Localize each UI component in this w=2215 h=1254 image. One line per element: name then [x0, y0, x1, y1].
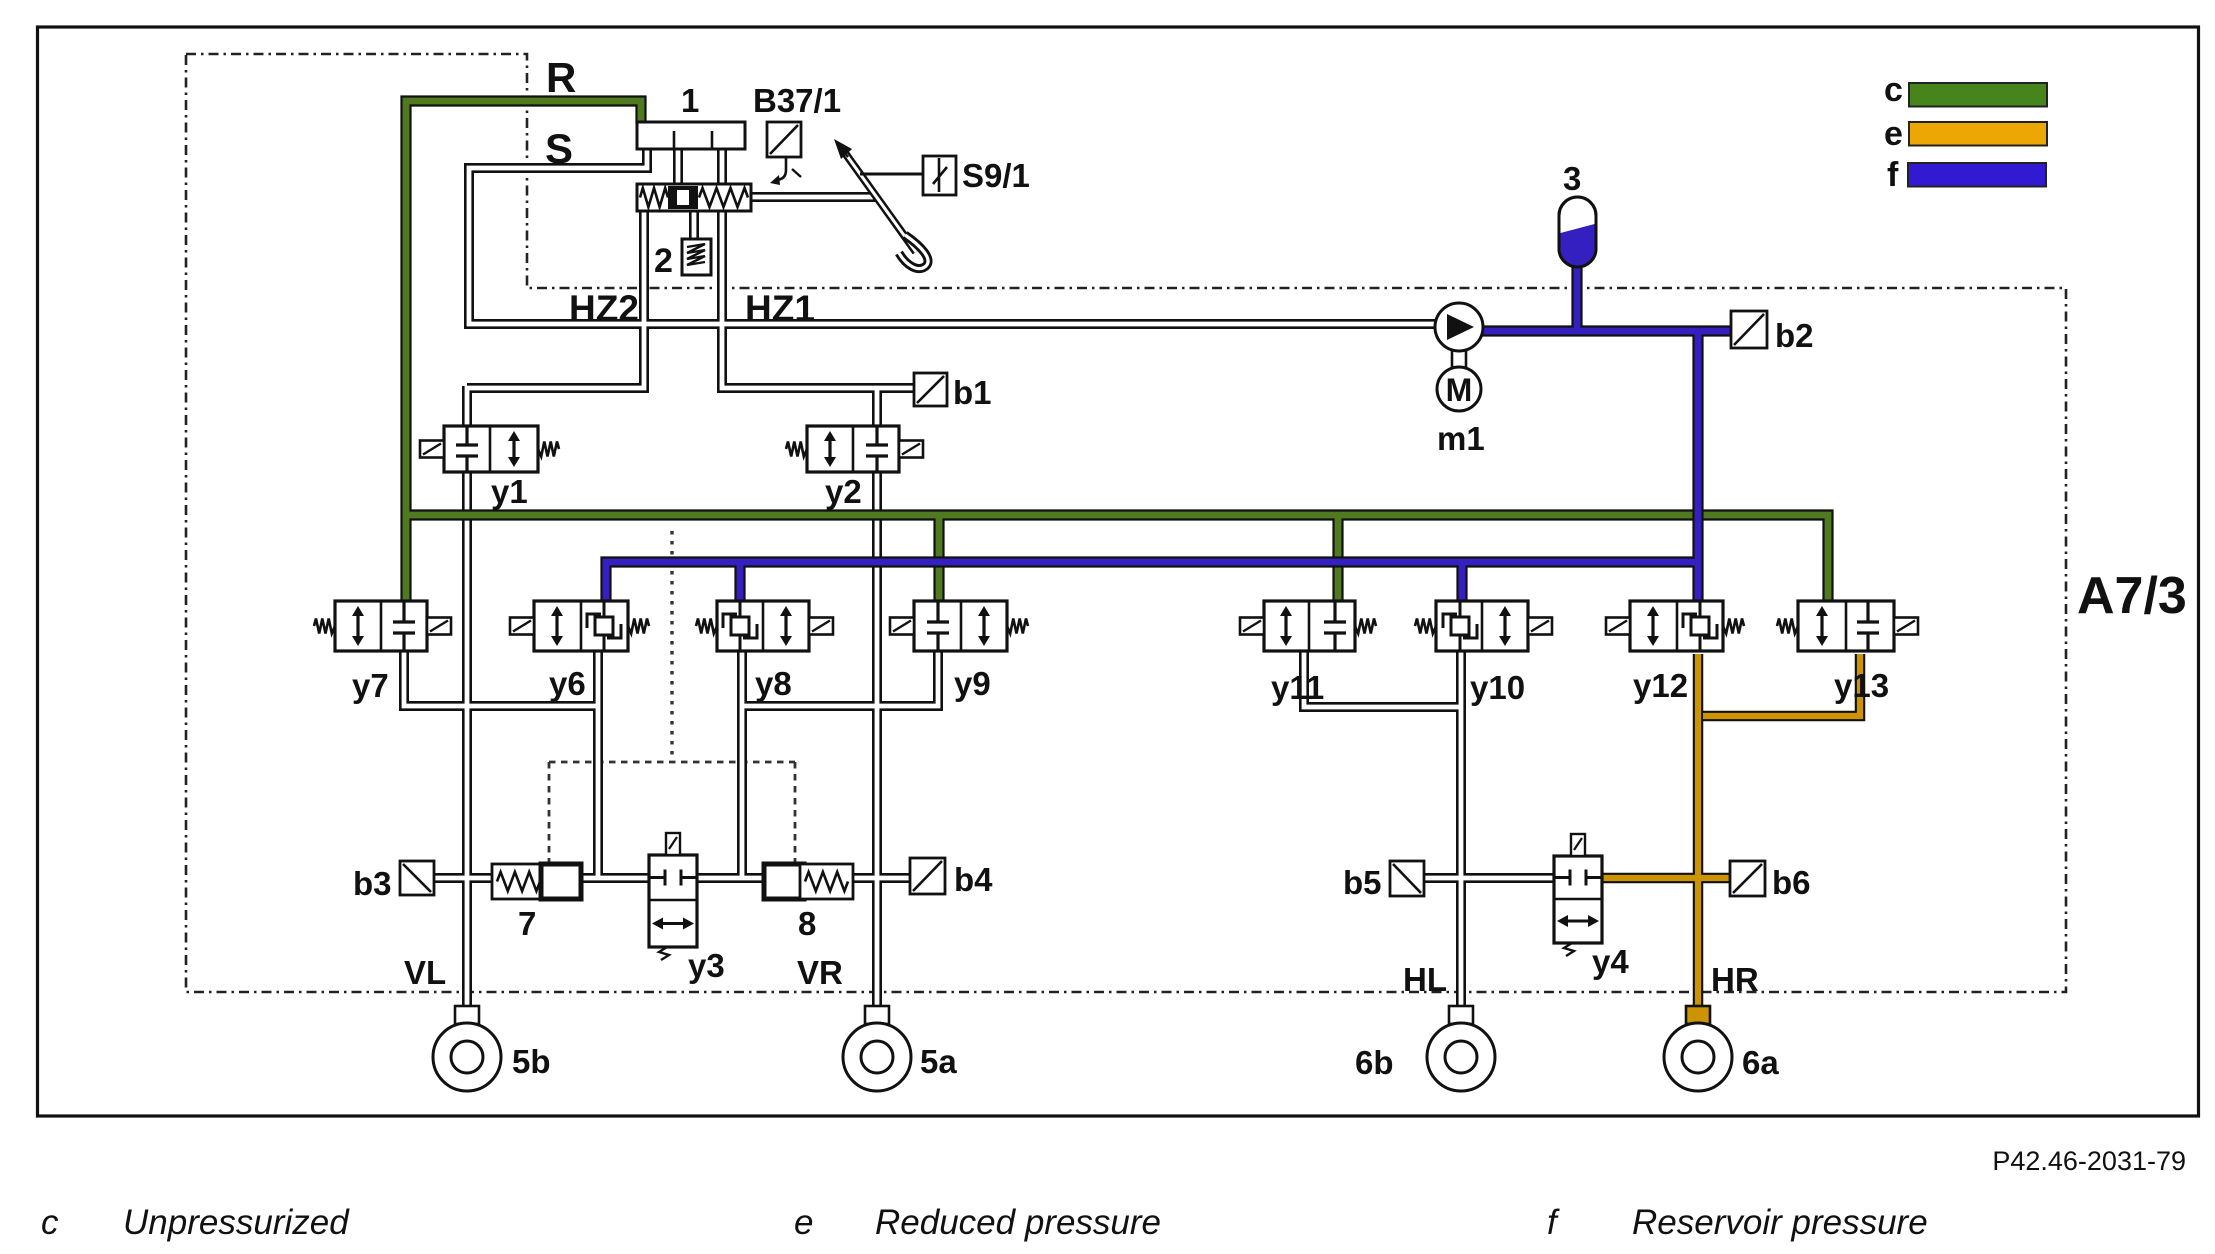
- svg-text:c: c: [1884, 71, 1903, 109]
- svg-text:y1: y1: [491, 473, 528, 510]
- svg-text:b2: b2: [1775, 317, 1814, 354]
- svg-text:6b: 6b: [1355, 1044, 1394, 1081]
- svg-text:HR: HR: [1711, 961, 1759, 998]
- svg-text:Reservoir pressure: Reservoir pressure: [1632, 1203, 1928, 1242]
- svg-text:5a: 5a: [920, 1043, 957, 1080]
- svg-text:y7: y7: [352, 667, 389, 704]
- svg-text:y8: y8: [755, 665, 792, 702]
- svg-text:P42.46-2031-79: P42.46-2031-79: [1992, 1146, 2186, 1176]
- svg-text:f: f: [1887, 156, 1899, 194]
- svg-text:5b: 5b: [512, 1043, 551, 1080]
- svg-text:2: 2: [654, 242, 673, 280]
- svg-text:y6: y6: [549, 665, 586, 702]
- svg-text:VR: VR: [797, 954, 843, 991]
- svg-text:b6: b6: [1772, 864, 1811, 901]
- svg-text:b1: b1: [953, 374, 992, 411]
- svg-text:HZ1: HZ1: [745, 288, 815, 329]
- svg-text:S: S: [545, 125, 573, 172]
- svg-text:1: 1: [681, 82, 699, 119]
- svg-text:HL: HL: [1403, 961, 1447, 998]
- svg-text:R: R: [546, 54, 576, 101]
- svg-text:b4: b4: [954, 861, 993, 898]
- svg-text:c: c: [41, 1203, 59, 1242]
- svg-text:y9: y9: [954, 665, 991, 702]
- svg-text:y13: y13: [1834, 667, 1889, 704]
- svg-text:B37/1: B37/1: [753, 82, 841, 119]
- svg-text:y12: y12: [1633, 667, 1688, 704]
- svg-text:6a: 6a: [1742, 1044, 1779, 1081]
- svg-text:b5: b5: [1343, 864, 1382, 901]
- svg-text:M: M: [1446, 372, 1473, 408]
- svg-text:A7/3: A7/3: [2077, 567, 2187, 625]
- svg-text:y2: y2: [825, 473, 862, 510]
- svg-text:y4: y4: [1592, 943, 1629, 980]
- svg-text:7: 7: [518, 905, 536, 942]
- svg-text:Unpressurized: Unpressurized: [123, 1203, 350, 1242]
- svg-text:y11: y11: [1271, 669, 1324, 706]
- svg-text:m1: m1: [1437, 420, 1485, 457]
- svg-text:3: 3: [1563, 160, 1581, 197]
- svg-text:VL: VL: [404, 954, 446, 991]
- svg-text:HZ2: HZ2: [569, 288, 639, 329]
- svg-text:y10: y10: [1470, 669, 1525, 706]
- svg-text:Reduced pressure: Reduced pressure: [875, 1203, 1161, 1242]
- svg-text:e: e: [794, 1203, 813, 1242]
- svg-text:e: e: [1884, 115, 1903, 153]
- svg-text:8: 8: [798, 905, 816, 942]
- svg-text:b3: b3: [353, 865, 392, 902]
- svg-text:y3: y3: [688, 947, 725, 984]
- svg-text:S9/1: S9/1: [962, 157, 1030, 194]
